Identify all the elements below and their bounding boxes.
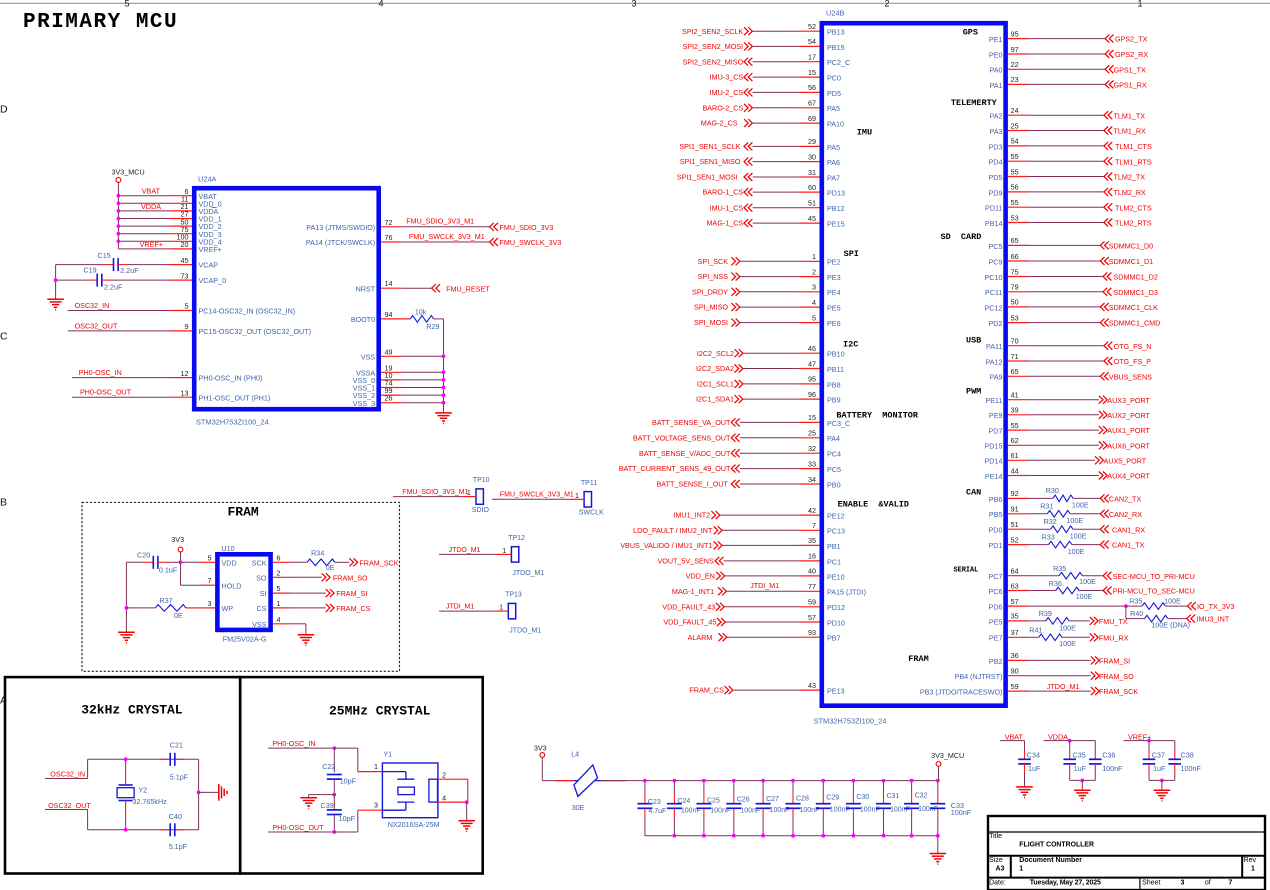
svg-text:SDIO: SDIO <box>472 507 490 514</box>
wire <box>720 514 798 516</box>
svg-text:29: 29 <box>808 137 816 146</box>
wire <box>724 560 799 562</box>
wire PD6 to junction <box>1028 605 1126 607</box>
svg-text:MAG-1_INT1: MAG-1_INT1 <box>672 587 714 596</box>
resistor R29 10k <box>410 316 434 323</box>
svg-text:BARO-2_CS: BARO-2_CS <box>702 103 743 112</box>
resistor R36 100E <box>1028 590 1055 592</box>
wire pin4 to ground <box>466 802 468 821</box>
pin 71 PA12 (U24B) <box>1008 360 1029 362</box>
svg-text:VDD_FAULT_45: VDD_FAULT_45 <box>663 618 716 627</box>
net label FRAM_SO <box>1091 672 1099 680</box>
svg-text:100nF: 100nF <box>951 808 972 817</box>
wire <box>722 529 798 531</box>
pin 37 PE7 (U24B) <box>1008 636 1029 638</box>
svg-text:FMU_SWCLK_3V3_M1: FMU_SWCLK_3V3_M1 <box>409 232 485 241</box>
svg-text:12: 12 <box>181 369 189 378</box>
svg-text:FRAM_SCK: FRAM_SCK <box>359 558 398 567</box>
svg-text:R37: R37 <box>159 596 172 605</box>
wire <box>402 355 444 357</box>
resistor R38 100E <box>1126 605 1142 607</box>
svg-text:ALARM: ALARM <box>688 633 713 642</box>
svg-text:R35: R35 <box>1053 564 1066 573</box>
pin 5 VDD (U10) <box>200 561 215 563</box>
svg-text:PB13: PB13 <box>827 28 845 37</box>
ground (VREF+) <box>1154 790 1171 801</box>
junction <box>117 217 121 221</box>
svg-text:100E: 100E <box>1164 597 1181 606</box>
svg-text:2: 2 <box>812 267 816 276</box>
svg-text:PE11: PE11 <box>985 396 1002 405</box>
svg-text:GPS1_RX: GPS1_RX <box>1114 81 1147 90</box>
svg-text:59: 59 <box>808 598 816 607</box>
svg-text:4.7uF: 4.7uF <box>648 808 666 815</box>
svg-text:Size: Size <box>989 857 1003 864</box>
net label AUX6_PORT <box>1099 441 1107 449</box>
net label OTG_FS_P <box>1104 357 1112 365</box>
svg-text:PB4 (NJTRST): PB4 (NJTRST) <box>955 672 1003 681</box>
wire VDDA gnd <box>1081 780 1083 790</box>
svg-text:FMU_SDIO_3V3: FMU_SDIO_3V3 <box>500 223 554 232</box>
wire <box>740 421 799 423</box>
net label AUX4_PORT <box>1099 472 1107 480</box>
svg-text:PD0: PD0 <box>989 526 1003 535</box>
svg-text:PD3: PD3 <box>989 142 1003 151</box>
svg-text:CAN2_RX: CAN2_RX <box>1109 510 1142 519</box>
svg-text:100E (DNA): 100E (DNA) <box>1151 621 1190 630</box>
svg-text:33: 33 <box>808 459 816 468</box>
svg-text:100E: 100E <box>1079 577 1096 586</box>
svg-text:95: 95 <box>808 375 816 384</box>
wire SI <box>290 592 326 594</box>
wire to test point <box>439 553 496 555</box>
sheet frame border line <box>0 2 1270 4</box>
wire <box>1028 675 1090 677</box>
svg-text:MAG-1_CS: MAG-1_CS <box>706 219 743 228</box>
wire bottom rail (decoupling) <box>645 835 938 837</box>
wire R40 branch <box>1125 606 1127 619</box>
pin 90 PB4 (NJTRST) (U24B) <box>1008 675 1029 677</box>
capacitor C30 100nF <box>852 781 854 794</box>
svg-text:SDMMC1_D2: SDMMC1_D2 <box>1114 273 1158 282</box>
svg-text:VBUS_VALIDO / IMU1_INT1: VBUS_VALIDO / IMU1_INT1 <box>620 541 712 550</box>
svg-text:15: 15 <box>808 413 816 422</box>
svg-text:FRAM_CS: FRAM_CS <box>336 604 371 613</box>
svg-text:C34: C34 <box>1027 751 1040 760</box>
svg-text:JTDI_M1: JTDI_M1 <box>750 581 779 590</box>
pin 31 PA7 (U24B) <box>798 176 819 178</box>
svg-text:PD14: PD14 <box>985 457 1003 466</box>
svg-text:BATT_SENSE_VA_OUT: BATT_SENSE_VA_OUT <box>652 418 731 427</box>
pin 23 PA1 (U24B) <box>1008 83 1029 85</box>
pin 56 PD9 (U24B) <box>1008 191 1029 193</box>
svg-text:10pF: 10pF <box>339 814 356 823</box>
wire <box>1028 475 1098 477</box>
pin 60 PD13 (U24B) <box>798 191 819 193</box>
svg-text:R39: R39 <box>1039 609 1052 618</box>
junction <box>442 370 446 374</box>
svg-text:PD6: PD6 <box>989 603 1003 612</box>
pin 59 PB3 (JTDO/TRACESWO) (U24B) <box>1008 690 1029 692</box>
wire <box>722 544 798 546</box>
pin 12 PH0-OSC_IN (U24A) <box>170 377 192 379</box>
svg-text:PC4: PC4 <box>827 450 841 459</box>
ground (rail) <box>930 854 947 865</box>
svg-text:C23: C23 <box>648 799 661 806</box>
wire <box>740 437 799 439</box>
svg-text:25: 25 <box>808 429 816 438</box>
svg-text:43: 43 <box>808 681 816 690</box>
svg-text:Sheet: Sheet <box>1142 879 1160 886</box>
svg-text:TLM2_RX: TLM2_RX <box>1114 188 1147 197</box>
wire 3V3_MCU vertical rail <box>117 182 119 249</box>
svg-text:55: 55 <box>1011 167 1019 176</box>
svg-text:26: 26 <box>385 394 393 403</box>
svg-text:64: 64 <box>1011 567 1019 576</box>
port FMU_SDIO_3V3 <box>490 223 498 231</box>
junction <box>124 828 128 832</box>
svg-text:C37: C37 <box>1152 751 1165 760</box>
capacitor C36 100nF <box>1094 741 1096 749</box>
net label AUX3_PORT <box>1099 396 1107 404</box>
svg-text:PE7: PE7 <box>989 634 1003 643</box>
pin 35 PE5 (U24B) <box>1008 620 1029 622</box>
pin 55 PD4 (U24B) <box>1008 160 1029 162</box>
pin 95 PE1 (U24B) <box>1008 38 1029 40</box>
svg-text:SEC-MCU_TO_PRI-MCU: SEC-MCU_TO_PRI-MCU <box>1113 572 1195 581</box>
svg-text:36: 36 <box>1011 651 1019 660</box>
svg-text:42: 42 <box>808 506 816 515</box>
capacitor C39 10pF <box>333 795 335 810</box>
svg-text:22: 22 <box>1011 60 1019 69</box>
pin 65 PC5 (U24B) <box>1008 244 1029 246</box>
svg-text:OTG_FS_P: OTG_FS_P <box>1114 357 1152 366</box>
wire PH0-OSC_IN (crystal) <box>268 747 358 749</box>
svg-text:SPI2_SEN2_MOSI: SPI2_SEN2_MOSI <box>682 42 743 51</box>
svg-text:JTDO_M1: JTDO_M1 <box>512 570 544 577</box>
svg-text:VBAT: VBAT <box>1005 732 1024 741</box>
pin 42 PE12 (U24B) <box>798 514 819 516</box>
svg-text:IMU-3_CS: IMU-3_CS <box>710 73 744 82</box>
wire VSS to ground <box>290 623 306 625</box>
resistor R31 100E <box>1028 513 1047 515</box>
svg-text:2: 2 <box>277 568 281 577</box>
capacitor C31 100nF <box>883 781 885 794</box>
pin 66 PC9 (U24B) <box>1008 260 1029 262</box>
svg-text:TLM1_RX: TLM1_RX <box>1114 127 1147 136</box>
wire VCAP rail <box>55 265 57 299</box>
svg-text:53: 53 <box>1011 313 1019 322</box>
svg-text:VDD_FAULT_43: VDD_FAULT_43 <box>662 602 715 611</box>
wire FMU_SDIO <box>402 226 490 228</box>
wire <box>402 402 444 404</box>
pin 74 VSS_1 (U24A) <box>381 387 402 389</box>
pin 100 VDD_4 (U24A) <box>170 240 192 242</box>
svg-text:PD7: PD7 <box>989 427 1003 436</box>
svg-text:30: 30 <box>808 152 816 161</box>
svg-text:PC0: PC0 <box>827 74 841 83</box>
svg-text:PC1: PC1 <box>827 557 841 566</box>
wire PH0-OSC_OUT <box>72 396 170 398</box>
svg-text:2.2uF: 2.2uF <box>120 266 139 275</box>
svg-text:5.1pF: 5.1pF <box>169 842 188 851</box>
pin 20 VREF+ (U24A) <box>170 248 192 250</box>
svg-text:PE5: PE5 <box>989 617 1003 626</box>
pin 2 (Y1) <box>438 778 468 780</box>
wire top rail (decoupling) <box>645 780 938 782</box>
wire <box>1028 690 1090 692</box>
svg-text:U24A: U24A <box>198 175 217 184</box>
net label VBUS_SENS <box>1100 372 1108 380</box>
wire <box>740 260 798 262</box>
pin 16 PC1 (U24B) <box>798 560 819 562</box>
svg-text:CAN1_RX: CAN1_RX <box>1112 525 1145 534</box>
svg-text:76: 76 <box>385 233 393 242</box>
pin 61 PD14 (U24B) <box>1008 459 1029 461</box>
svg-text:0.1uF: 0.1uF <box>159 566 178 575</box>
svg-text:PA7: PA7 <box>827 173 840 182</box>
pin 5 PE6 (U24B) <box>798 322 819 324</box>
svg-text:3: 3 <box>208 599 212 608</box>
svg-text:92: 92 <box>1011 489 1019 498</box>
svg-text:CAN: CAN <box>966 488 981 498</box>
svg-text:51: 51 <box>1011 520 1019 529</box>
svg-text:PB7: PB7 <box>827 634 841 643</box>
net label SEC-MCU_TO_PRI-MCU <box>1103 572 1111 580</box>
wire <box>753 161 799 163</box>
svg-text:VOUT_5V_SENS: VOUT_5V_SENS <box>657 557 714 566</box>
svg-text:TP10: TP10 <box>473 477 490 484</box>
wire R29 to rail <box>434 318 444 320</box>
pin 5 PC14-OSC32_IN (U24A) <box>170 310 192 312</box>
svg-text:C19: C19 <box>83 266 96 275</box>
port IO_TX_3V3 <box>1188 602 1196 610</box>
svg-text:PD2: PD2 <box>989 319 1003 328</box>
svg-text:C26: C26 <box>737 797 750 804</box>
svg-text:PD10: PD10 <box>827 618 845 627</box>
svg-text:96: 96 <box>808 390 816 399</box>
svg-text:Rev: Rev <box>1244 857 1257 864</box>
svg-text:PC6: PC6 <box>989 587 1003 596</box>
svg-text:PB15: PB15 <box>827 43 845 52</box>
svg-text:69: 69 <box>808 114 816 123</box>
pin 9 PC15-OSC32_OUT (U24A) <box>170 330 192 332</box>
svg-text:93: 93 <box>808 628 816 637</box>
svg-text:TP12: TP12 <box>508 535 525 542</box>
wire <box>753 91 799 93</box>
svg-text:100E: 100E <box>1068 547 1085 556</box>
svg-text:3V3: 3V3 <box>534 744 547 753</box>
junction <box>821 779 825 783</box>
pin 7 HOLD (U10) <box>200 584 215 586</box>
svg-text:SDMMC1_CMD: SDMMC1_CMD <box>1109 319 1161 328</box>
svg-text:PD5: PD5 <box>989 173 1003 182</box>
junction <box>1160 779 1164 783</box>
pin 91 PB5 (U24B) <box>1008 513 1029 515</box>
pin 1 CS (U10) <box>273 607 290 609</box>
svg-text:40: 40 <box>808 567 816 576</box>
svg-text:7: 7 <box>812 521 816 530</box>
svg-text:1: 1 <box>374 762 378 771</box>
svg-text:3: 3 <box>631 0 636 9</box>
wire <box>1028 659 1090 661</box>
svg-text:PB10: PB10 <box>827 350 845 359</box>
wire 3V3 to VDD <box>180 552 182 585</box>
svg-text:PWM: PWM <box>966 387 981 397</box>
pin 76 PA14 (U24A) <box>381 241 402 243</box>
pin 3 PE4 (U24B) <box>798 291 819 293</box>
pin 35 PB1 (U24B) <box>798 544 819 546</box>
wire <box>1028 444 1098 446</box>
svg-text:CAN1_TX: CAN1_TX <box>1112 541 1145 550</box>
svg-text:C30: C30 <box>856 794 869 801</box>
wire <box>1028 375 1100 377</box>
svg-text:VDDA: VDDA <box>1048 732 1068 741</box>
pin 73 VCAP_0 (U24A) <box>170 279 192 281</box>
svg-text:PB14: PB14 <box>985 219 1003 228</box>
net label TLM2_RX <box>1104 188 1112 196</box>
capacitor C21 5.1pF <box>160 758 170 760</box>
junction <box>852 779 856 783</box>
svg-text:TLM2_RTS: TLM2_RTS <box>1115 219 1152 228</box>
svg-text:31: 31 <box>808 168 816 177</box>
svg-text:BOOT0: BOOT0 <box>351 315 375 324</box>
svg-text:PB6: PB6 <box>989 495 1003 504</box>
svg-text:PA15 (JTDI): PA15 (JTDI) <box>827 588 866 597</box>
wire <box>1028 38 1105 40</box>
port FMU_RESET <box>432 284 440 292</box>
net label TLM2_TX <box>1104 173 1112 181</box>
svg-text:PA11: PA11 <box>986 342 1003 351</box>
svg-text:63: 63 <box>1011 581 1019 590</box>
svg-text:R40: R40 <box>1130 609 1143 618</box>
pin 17 PC2_C (U24B) <box>798 61 819 63</box>
crystal Y1 NX2016SA-25M box <box>382 763 438 818</box>
junction <box>442 401 446 405</box>
svg-text:PA6: PA6 <box>827 158 840 167</box>
wire PH0-OSC_OUT (crystal) <box>268 831 358 833</box>
svg-text:TP13: TP13 <box>505 592 522 599</box>
junction <box>1124 604 1128 608</box>
svg-text:PC10: PC10 <box>985 273 1003 282</box>
svg-text:TLM1_TX: TLM1_TX <box>1114 111 1146 120</box>
pin 96 PB9 (U24B) <box>798 398 819 400</box>
pin 50 PC12 (U24B) <box>1008 306 1029 308</box>
svg-text:PD4: PD4 <box>989 158 1003 167</box>
svg-text:5: 5 <box>277 584 281 593</box>
svg-text:20: 20 <box>181 240 189 249</box>
net label PRI-MCU_TO_SEC-MCU <box>1103 587 1111 595</box>
svg-text:PC5: PC5 <box>989 242 1003 251</box>
svg-text:CAN2_TX: CAN2_TX <box>1109 495 1142 504</box>
svg-text:JTDI_M1: JTDI_M1 <box>446 604 475 611</box>
svg-text:1uF: 1uF <box>1074 764 1087 773</box>
pin 67 PA5 (U24B) <box>798 107 819 109</box>
wire <box>1028 145 1104 147</box>
wire <box>1028 306 1100 308</box>
net label AUX2_PORT <box>1099 411 1107 419</box>
svg-text:JTDO_M1: JTDO_M1 <box>449 547 481 554</box>
wire <box>740 452 799 454</box>
svg-text:0E: 0E <box>174 611 183 620</box>
junction <box>1080 779 1084 783</box>
svg-text:FMU_RX: FMU_RX <box>1099 633 1129 642</box>
svg-text:SDMMC1_D0: SDMMC1_D0 <box>1109 242 1153 251</box>
wire VDDA <box>1044 740 1096 742</box>
svg-text:32: 32 <box>808 444 816 453</box>
svg-text:PC13: PC13 <box>827 527 845 536</box>
svg-text:70: 70 <box>1011 337 1019 346</box>
junction <box>852 834 856 838</box>
svg-text:65: 65 <box>1011 367 1019 376</box>
pin 26 VSS_3 (U24A) <box>381 402 402 404</box>
net label CAN1_TX <box>1100 541 1108 549</box>
svg-text:54: 54 <box>1011 137 1019 146</box>
pin 43 PE13 (U24B) <box>798 689 819 691</box>
svg-text:Document Number: Document Number <box>1019 857 1082 864</box>
pin 33 PC5 (U24B) <box>798 468 819 470</box>
wire OSC32_OUT <box>68 330 170 332</box>
svg-text:50: 50 <box>1011 298 1019 307</box>
pin 6 VBAT (U24A) <box>170 195 192 197</box>
svg-text:TELEMERTY: TELEMERTY <box>951 98 998 108</box>
svg-text:3: 3 <box>374 801 378 810</box>
svg-text:90: 90 <box>1011 667 1019 676</box>
svg-text:OTG_FS_N: OTG_FS_N <box>1114 342 1152 351</box>
wire <box>733 689 798 691</box>
svg-text:0E: 0E <box>326 563 335 572</box>
svg-text:GPS2_TX: GPS2_TX <box>1115 35 1148 44</box>
32kHz crystal box <box>5 677 240 873</box>
pin 69 PA10 (U24B) <box>798 122 819 124</box>
junction <box>442 378 446 382</box>
svg-text:PA3: PA3 <box>989 127 1002 136</box>
wire <box>740 483 799 485</box>
svg-text:PC15-OSC32_OUT (OSC32_OUT): PC15-OSC32_OUT (OSC32_OUT) <box>199 327 312 336</box>
capacitor C27 100nF <box>762 781 764 794</box>
capacitor C38 100nF <box>1174 741 1176 749</box>
pin 53 PD2 (U24B) <box>1008 322 1029 324</box>
svg-text:A3: A3 <box>996 865 1005 872</box>
pin 63 PC6 (U24B) <box>1008 590 1029 592</box>
svg-text:PA4: PA4 <box>827 434 840 443</box>
pin 59 PD12 (U24B) <box>798 606 819 608</box>
svg-text:SPI: SPI <box>844 249 859 259</box>
wire C20 left rail <box>125 562 127 632</box>
pin 24 PA2 (U24B) <box>1008 114 1029 116</box>
junction <box>442 393 446 397</box>
wire OSC32_IN (crystal) <box>45 778 88 780</box>
svg-text:SDMMC1_D3: SDMMC1_D3 <box>1114 288 1158 297</box>
svg-text:TLM2_CTS: TLM2_CTS <box>1115 203 1152 212</box>
resistor R40 100E (DNA) <box>1145 615 1168 622</box>
wire <box>753 122 799 124</box>
wire <box>1028 68 1105 70</box>
svg-text:R29: R29 <box>426 322 439 331</box>
wire <box>1028 83 1105 85</box>
svg-text:100E: 100E <box>1059 639 1076 648</box>
svg-text:95: 95 <box>1011 29 1019 38</box>
svg-text:ENABLE &VALID: ENABLE &VALID <box>838 499 909 509</box>
junction <box>332 793 336 797</box>
crystal symbol inside Y1 <box>382 772 437 811</box>
svg-text:MAG-2_CS: MAG-2_CS <box>701 119 738 128</box>
wire NRST <box>402 287 432 289</box>
wire FMU_SWCLK <box>402 241 490 243</box>
svg-text:PB5: PB5 <box>989 510 1003 519</box>
svg-text:SO: SO <box>256 573 267 582</box>
pin 36 PB2 (U24B) <box>1008 659 1029 661</box>
